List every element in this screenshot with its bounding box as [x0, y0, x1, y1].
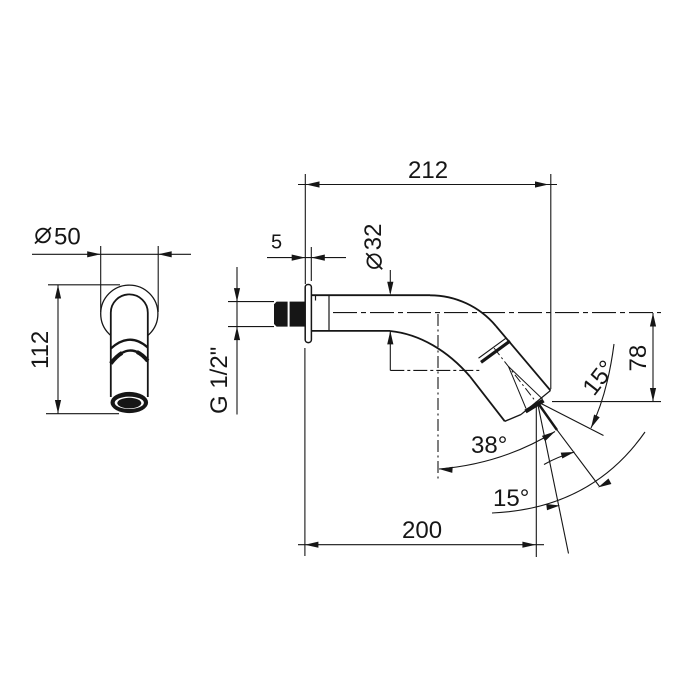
outlet rim — [505, 415, 521, 422]
band thick line — [481, 341, 510, 362]
112 dimension line — [57, 285, 59, 414]
svg-text:78: 78 — [625, 345, 652, 372]
5 dimension line — [267, 257, 346, 259]
svg-text:32: 32 — [360, 223, 387, 250]
212 arrows — [87, 251, 101, 257]
svg-text:15°: 15° — [493, 485, 529, 512]
band arc 2 — [111, 350, 148, 363]
112 extension lines — [48, 284, 120, 286]
200 extension line right (from outlet) — [535, 406, 537, 557]
spray line F1 — [541, 404, 604, 436]
dia32 dimension line upper — [389, 270, 391, 293]
svg-text:50: 50 — [54, 224, 81, 251]
sleeve seam — [328, 295, 330, 331]
head lower edge — [470, 377, 505, 422]
upper 15 arc — [591, 344, 614, 428]
200 extension line left — [304, 348, 306, 556]
lower big 15 arc — [492, 432, 645, 513]
head upper edge — [496, 326, 551, 391]
bend outer curve — [430, 295, 496, 326]
tube bottom edge — [311, 330, 390, 332]
label dia32 (rotated) — [360, 223, 387, 269]
flange plate — [305, 285, 311, 343]
flange circle (side view, Ø50) — [101, 285, 158, 342]
5 extension line — [310, 247, 312, 281]
band arc 1 — [111, 340, 148, 349]
centerline horizontal (78 upper extension) — [333, 312, 661, 314]
cone right edge — [509, 367, 543, 400]
thread block 2 — [290, 302, 305, 327]
5 arrows — [55, 285, 61, 299]
tube outline — [111, 294, 148, 397]
svg-text:112: 112 — [27, 331, 54, 369]
tube body (white fill hides circle bottom) — [111, 294, 148, 396]
dia32 arrows — [387, 282, 393, 296]
38 deg arc — [439, 432, 555, 470]
G12 dimension line — [236, 267, 238, 415]
tube start tick — [315, 295, 317, 300]
78 arrows — [650, 313, 656, 327]
38 deg vertical leg (dash-dot centerline) — [437, 314, 439, 481]
bend reference dash-dot horizontal — [390, 369, 482, 371]
svg-text:G 1/2": G 1/2" — [206, 347, 233, 414]
thread (G 1/2) block 1 — [274, 302, 288, 327]
212 dimension line — [298, 184, 557, 186]
svg-text:200: 200 — [402, 517, 442, 544]
dia32 dimension line lower — [389, 331, 391, 370]
G12 arrows — [234, 288, 240, 302]
112 arrows — [292, 255, 306, 261]
212 extension line left — [304, 174, 306, 284]
band thin line — [479, 338, 507, 358]
outlet face thick line — [526, 401, 544, 412]
dia50 dimension line — [32, 253, 191, 255]
200 arrows — [305, 542, 319, 548]
cone left edge — [509, 367, 527, 409]
tube top edge — [311, 294, 430, 296]
78 extension line lower — [552, 401, 661, 403]
mid 15 arc — [544, 452, 575, 465]
78 dimension line — [652, 313, 654, 402]
svg-text:5: 5 — [271, 232, 282, 254]
spray axis thin part — [556, 429, 600, 487]
spray axis thick part — [539, 405, 557, 431]
outlet face thin edge — [521, 391, 551, 415]
outlet ellipse (dark ring) — [111, 392, 149, 413]
200 dimension line — [298, 544, 544, 546]
G12 extension lines — [228, 301, 274, 303]
svg-text:15°: 15° — [577, 355, 621, 400]
spray line F3 — [538, 405, 569, 554]
band arc 2 thick ends — [111, 353, 122, 364]
svg-text:38°: 38° — [471, 432, 507, 459]
dia50 extension lines — [100, 246, 102, 312]
label dia50 — [35, 224, 81, 251]
svg-text:212: 212 — [408, 157, 448, 184]
dia50 arrows — [306, 181, 320, 187]
38 arc arrows — [439, 467, 453, 473]
head axis dash-dot — [494, 348, 537, 403]
212 extension line right — [550, 174, 552, 389]
bend inner curve — [390, 331, 470, 377]
